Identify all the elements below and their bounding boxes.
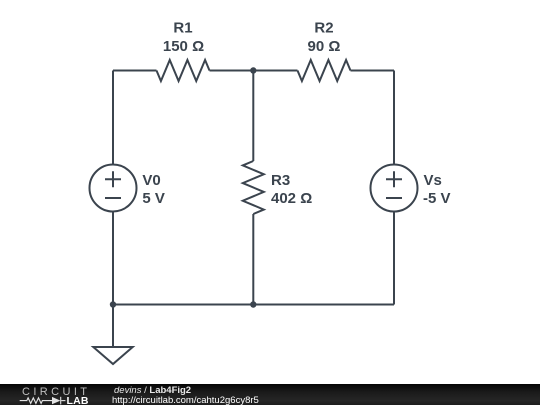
svg-text:V0: V0 [142, 172, 160, 189]
svg-text:402 Ω: 402 Ω [271, 190, 312, 207]
svg-text:R1: R1 [173, 20, 192, 37]
svg-text:Vs: Vs [424, 172, 442, 189]
svg-text:90 Ω: 90 Ω [308, 38, 341, 55]
svg-text:5 V: 5 V [142, 190, 165, 207]
svg-text:150 Ω: 150 Ω [163, 38, 204, 55]
svg-text:R3: R3 [271, 172, 290, 189]
svg-text:LAB: LAB [67, 395, 89, 405]
svg-text:R2: R2 [314, 20, 333, 37]
svg-text:-5 V: -5 V [423, 190, 451, 207]
